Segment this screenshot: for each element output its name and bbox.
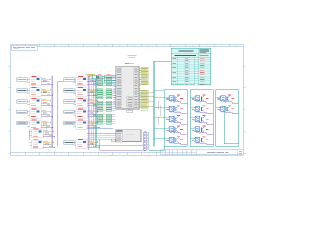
net label P2.6	[139, 104, 148, 105]
optocoupler U4 + transistor VT4 output channel	[164, 126, 187, 134]
crystal Y1 below MCU	[127, 109, 133, 113]
net label +5V	[85, 74, 94, 75]
wires from A11 to bus	[87, 111, 99, 118]
wires from A3 to bus	[41, 100, 53, 107]
net label P1.2	[139, 72, 148, 73]
input filter unit A1	[27, 77, 41, 86]
optocoupler U5 + transistor VT5 output channel	[164, 136, 187, 144]
wires from A2 to bus	[41, 89, 53, 96]
part number text above DD1	[128, 56, 137, 58]
wires from A8 to bus	[87, 78, 99, 85]
net label P1.3	[139, 74, 148, 75]
connector X9	[64, 89, 75, 93]
optocoupler U2 + transistor VT2 output channel	[164, 105, 187, 113]
optocoupler U6 + transistor VT6 output channel	[190, 95, 213, 103]
optocoupler U11 + transistor VT11 output channel	[216, 95, 239, 103]
optocoupler U8 + transistor VT8 output channel	[190, 116, 213, 124]
input filter unit A7	[29, 140, 43, 149]
bus (violet)	[87, 76, 89, 150]
wires ZQ1 to MCU	[104, 76, 115, 83]
input filter unit A10	[73, 98, 87, 107]
input filter unit A12	[73, 120, 87, 129]
teal rail by resistor networks	[95, 75, 97, 147]
decoupling capacitor C1	[112, 139, 115, 142]
bus (yellow)	[90, 76, 92, 147]
optocoupler U10 + transistor VT10 output channel	[190, 136, 213, 144]
net label P2.0	[139, 90, 148, 91]
connector X4	[17, 110, 28, 114]
bus net +U1 (yellow)	[50, 76, 52, 147]
connector X5	[17, 121, 28, 125]
teal route in group 3	[224, 106, 238, 144]
connector X8	[64, 78, 75, 82]
net label P1.7	[139, 83, 148, 84]
microcontroller DD1	[116, 66, 139, 109]
title block	[161, 150, 244, 155]
wires RN to MCU	[93, 77, 116, 124]
MCU right pin stubs	[139, 68, 141, 108]
optocoupler U12 + transistor VT12 output channel	[216, 105, 239, 113]
copyright stamp box	[12, 45, 37, 50]
input filter unit A9	[73, 87, 87, 96]
green stubs net labels to trunk	[141, 92, 154, 110]
input filter unit A3	[27, 98, 41, 107]
bus (green)	[92, 76, 94, 147]
net label P2.5	[139, 102, 148, 103]
wires from A10 to bus	[87, 100, 99, 107]
connector X12	[64, 121, 75, 125]
connector X13	[64, 141, 75, 145]
wires from A5 to bus	[41, 122, 53, 129]
teal supply trunk right	[154, 61, 172, 146]
mid signal wires	[87, 128, 116, 139]
connector X10	[64, 100, 75, 104]
connector X3	[17, 100, 28, 104]
net label P2.3	[139, 97, 148, 98]
net label P1.5	[139, 79, 148, 80]
bus net GNDA (violet)	[52, 76, 54, 147]
resistor network RN2	[106, 75, 111, 124]
relay group frame 3	[216, 90, 239, 147]
relay group frame 2	[190, 90, 213, 147]
wires from A1 to bus	[41, 78, 53, 85]
wires from A9 to bus	[87, 89, 99, 96]
input filter unit A2	[27, 87, 41, 96]
teal wire XP1 to relay frames	[149, 146, 165, 150]
input filter unit A13	[73, 140, 87, 149]
input filter unit A11	[73, 109, 87, 118]
optocoupler U3 + transistor VT3 output channel	[164, 116, 187, 124]
MCU left pin stubs	[114, 84, 116, 106]
net label P1.6	[139, 81, 148, 82]
relay group frame 1	[164, 90, 187, 147]
optocoupler U7 + transistor VT7 output channel	[190, 105, 213, 113]
connector X11	[64, 110, 75, 114]
wires from A12 to bus	[87, 122, 99, 129]
input filter unit A6	[29, 129, 43, 138]
optocoupler U9 + transistor VT9 output channel	[190, 126, 213, 134]
input filter unit A4	[27, 109, 41, 118]
bus (orange)	[89, 76, 91, 147]
wires from A6 to bus	[43, 131, 55, 138]
vertical net name label	[28, 130, 30, 140]
input filter unit A8	[73, 77, 87, 86]
net label P2.1	[139, 92, 148, 93]
sheet frame border	[9, 44, 246, 155]
optocoupler U1 + transistor VT1 output channel	[164, 95, 187, 103]
net label P2.7	[139, 106, 148, 107]
wires from A7 to bus	[43, 141, 55, 148]
wires from A13 to bus	[87, 141, 99, 148]
connector XP1	[143, 132, 149, 151]
interface IC DD2	[116, 130, 141, 143]
teal stubs to group 1	[154, 90, 165, 139]
pin assignment table	[171, 48, 210, 85]
vertical net name text	[158, 101, 160, 125]
vertical net name label 2	[45, 121, 47, 129]
net label P1.0	[139, 67, 148, 68]
net label P2.2	[139, 95, 148, 96]
reference label DD1	[125, 62, 134, 64]
violet return wires	[96, 140, 144, 151]
net label P2.4	[139, 99, 148, 100]
net label P1.1	[139, 70, 148, 71]
crystal ZQ1	[87, 75, 104, 78]
resistor network RN1	[97, 75, 102, 124]
wires from A4 to bus	[41, 111, 53, 118]
connector X2	[17, 89, 28, 93]
teal power trunk left	[58, 81, 96, 146]
connector X1	[17, 78, 28, 82]
input filter unit A5	[27, 120, 41, 129]
net label P1.4	[139, 77, 148, 78]
